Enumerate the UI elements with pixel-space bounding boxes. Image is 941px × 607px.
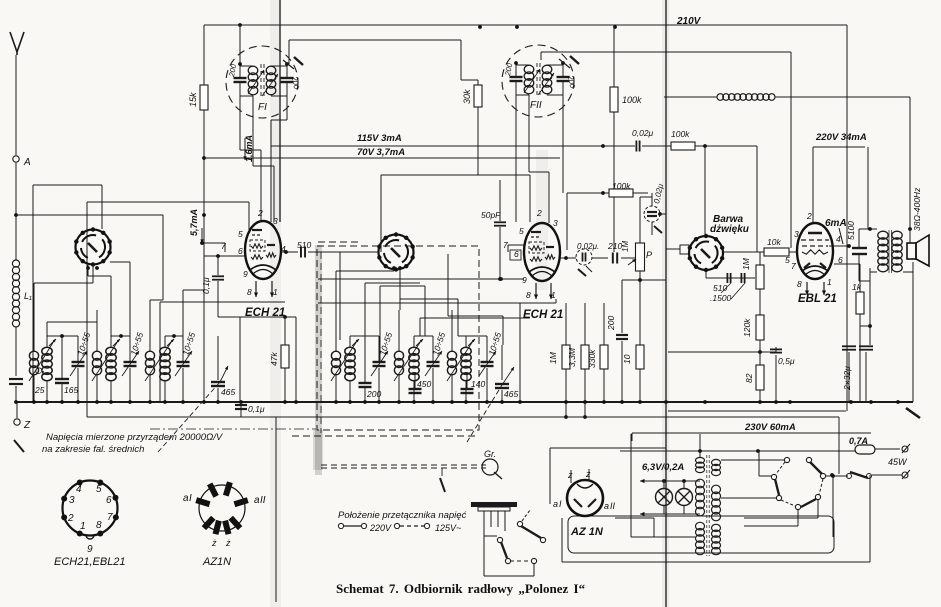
svg-text:Położenie przetącznika napięć: Położenie przetącznika napięć bbox=[338, 510, 467, 521]
svg-text:38Ω-400Hz: 38Ω-400Hz bbox=[912, 187, 922, 231]
svg-text:220V 34mA: 220V 34mA bbox=[815, 132, 867, 143]
svg-text:125V~: 125V~ bbox=[435, 523, 461, 533]
svg-text:dżwięku: dżwięku bbox=[710, 224, 749, 235]
svg-text:5100: 5100 bbox=[846, 221, 856, 240]
svg-text:140: 140 bbox=[471, 379, 485, 389]
svg-text:70V 3,7mA: 70V 3,7mA bbox=[357, 147, 405, 158]
svg-text:1M: 1M bbox=[741, 257, 751, 270]
svg-text:AZ 1N: AZ 1N bbox=[570, 526, 604, 538]
svg-text:FI: FI bbox=[258, 102, 267, 113]
svg-text:6: 6 bbox=[106, 495, 112, 506]
svg-text:6: 6 bbox=[238, 246, 243, 256]
svg-text:4: 4 bbox=[76, 484, 82, 495]
svg-text:2: 2 bbox=[806, 211, 812, 221]
svg-text:450: 450 bbox=[417, 379, 431, 389]
svg-text:82: 82 bbox=[744, 373, 754, 383]
svg-text:A: A bbox=[23, 157, 31, 168]
svg-text:5,7mA: 5,7mA bbox=[189, 209, 199, 236]
svg-text:II: II bbox=[610, 501, 616, 511]
svg-text:165: 165 bbox=[64, 385, 78, 395]
svg-text:5: 5 bbox=[519, 226, 524, 236]
svg-text:Gr.: Gr. bbox=[484, 449, 496, 459]
svg-text:0,02μ: 0,02μ bbox=[632, 128, 654, 138]
svg-text:200: 200 bbox=[366, 389, 381, 399]
svg-text:P: P bbox=[646, 250, 652, 260]
svg-text:10k: 10k bbox=[767, 237, 781, 247]
svg-text:.1500: .1500 bbox=[710, 293, 732, 303]
svg-text:50pF: 50pF bbox=[481, 210, 501, 220]
svg-text:0,5μ: 0,5μ bbox=[778, 356, 795, 366]
svg-text:ż: ż bbox=[211, 538, 217, 548]
svg-text:115V 3mA: 115V 3mA bbox=[357, 133, 402, 144]
svg-text:5: 5 bbox=[96, 484, 102, 495]
svg-text:6mA: 6mA bbox=[825, 218, 847, 229]
svg-text:200: 200 bbox=[606, 316, 616, 331]
svg-text:210V: 210V bbox=[676, 16, 702, 27]
svg-text:a: a bbox=[604, 501, 609, 511]
svg-text:8: 8 bbox=[96, 520, 102, 531]
svg-text:5: 5 bbox=[785, 255, 790, 265]
svg-text:100k: 100k bbox=[612, 181, 631, 191]
svg-text:3: 3 bbox=[273, 216, 278, 226]
svg-text:FII: FII bbox=[530, 100, 542, 111]
svg-text:1M: 1M bbox=[548, 351, 558, 364]
svg-text:Z: Z bbox=[23, 420, 31, 431]
svg-text:9: 9 bbox=[243, 269, 248, 279]
svg-text:EBL 21: EBL 21 bbox=[798, 293, 837, 305]
svg-text:2: 2 bbox=[257, 208, 263, 218]
svg-text:ż: ż bbox=[225, 538, 231, 548]
svg-text:465: 465 bbox=[504, 389, 518, 399]
svg-text:2: 2 bbox=[536, 208, 542, 218]
svg-text:6: 6 bbox=[514, 249, 519, 259]
svg-text:5: 5 bbox=[238, 229, 243, 239]
svg-text:I: I bbox=[189, 493, 192, 504]
svg-text:47k: 47k bbox=[269, 352, 279, 366]
svg-text:0,1μ: 0,1μ bbox=[248, 404, 265, 414]
svg-text:1: 1 bbox=[827, 277, 832, 287]
svg-text:30k: 30k bbox=[462, 89, 472, 104]
svg-text:45W: 45W bbox=[888, 457, 908, 467]
svg-text:4: 4 bbox=[836, 234, 841, 244]
svg-text:465: 465 bbox=[221, 387, 235, 397]
svg-text:na zakresie fal. średnich: na zakresie fal. średnich bbox=[42, 444, 144, 455]
svg-text:7: 7 bbox=[107, 512, 113, 523]
svg-text:II: II bbox=[260, 495, 266, 506]
svg-text:3: 3 bbox=[69, 495, 75, 506]
svg-text:510: 510 bbox=[297, 240, 311, 250]
svg-text:10: 10 bbox=[622, 354, 632, 364]
svg-text:510: 510 bbox=[713, 283, 727, 293]
svg-text:230V 60mA: 230V 60mA bbox=[744, 422, 796, 433]
svg-text:ż: ż bbox=[567, 470, 573, 480]
svg-text:0,1μ: 0,1μ bbox=[201, 277, 211, 294]
svg-text:100k: 100k bbox=[671, 129, 690, 139]
svg-text:3: 3 bbox=[553, 218, 558, 228]
svg-text:0,02μ.: 0,02μ. bbox=[577, 242, 599, 251]
svg-text:ECH21,EBL21: ECH21,EBL21 bbox=[54, 556, 126, 568]
svg-text:7: 7 bbox=[791, 261, 796, 271]
svg-text:220V: 220V bbox=[369, 523, 392, 533]
svg-text:100k: 100k bbox=[622, 95, 642, 105]
svg-text:ECH 21: ECH 21 bbox=[523, 309, 563, 321]
svg-text:8: 8 bbox=[526, 290, 531, 300]
svg-text:7: 7 bbox=[503, 240, 508, 250]
svg-text:1M: 1M bbox=[621, 241, 630, 252]
svg-text:1: 1 bbox=[273, 287, 278, 297]
svg-text:330k: 330k bbox=[587, 349, 597, 368]
svg-text:a: a bbox=[553, 499, 558, 509]
svg-text:120k: 120k bbox=[742, 318, 752, 337]
svg-text:1k: 1k bbox=[852, 282, 862, 292]
svg-text:8: 8 bbox=[247, 287, 252, 297]
svg-text:3: 3 bbox=[794, 229, 799, 239]
svg-text:2: 2 bbox=[67, 513, 74, 524]
svg-text:9: 9 bbox=[87, 544, 93, 555]
svg-text:9: 9 bbox=[522, 275, 527, 285]
svg-text:25: 25 bbox=[34, 385, 45, 395]
svg-text:1: 1 bbox=[80, 521, 86, 532]
svg-text:2×32μ: 2×32μ bbox=[842, 366, 852, 391]
svg-text:Napięcia mierzone przyrządem 2: Napięcia mierzone przyrządem 20000Ω/V bbox=[46, 432, 224, 443]
svg-text:6,3V/0,2A: 6,3V/0,2A bbox=[642, 462, 684, 473]
svg-text:AZ1N: AZ1N bbox=[202, 556, 231, 568]
svg-text:3,3M: 3,3M bbox=[567, 347, 577, 367]
svg-text:ż: ż bbox=[585, 469, 591, 479]
svg-text:7: 7 bbox=[221, 241, 226, 251]
svg-text:Schemat 7. Odbiornik radłowy: Schemat 7. Odbiornik radłowy „Polonez I“ bbox=[336, 581, 586, 596]
svg-text:8: 8 bbox=[797, 279, 802, 289]
svg-text:15k: 15k bbox=[188, 92, 198, 107]
svg-text:L₁: L₁ bbox=[24, 291, 32, 301]
